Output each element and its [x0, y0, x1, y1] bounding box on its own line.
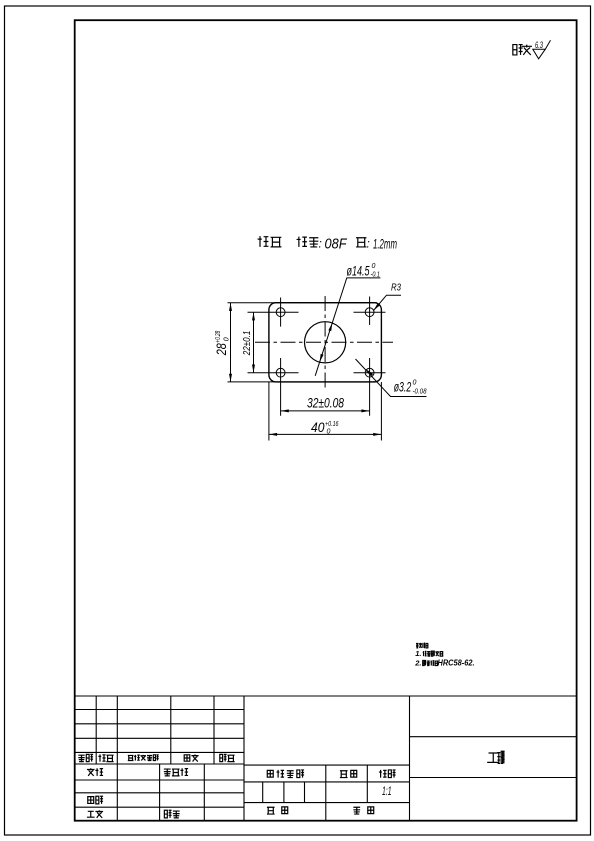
svg-text:32±0.08: 32±0.08 [307, 396, 344, 411]
svg-text:-0.1: -0.1 [371, 272, 381, 279]
svg-text:22±0.1: 22±0.1 [241, 331, 253, 356]
svg-text:1:1: 1:1 [382, 784, 392, 798]
svg-text:0: 0 [372, 263, 376, 270]
svg-text:6.3: 6.3 [535, 40, 543, 50]
svg-text:0: 0 [223, 337, 230, 341]
svg-text:1.2mm: 1.2mm [373, 236, 397, 252]
svg-text::: : [319, 237, 322, 251]
svg-text:+0.16: +0.16 [325, 421, 339, 428]
svg-text:0: 0 [413, 380, 417, 387]
svg-text:2.: 2. [414, 659, 421, 668]
svg-text:+0.28: +0.28 [215, 331, 222, 343]
svg-text:ø3.2: ø3.2 [394, 380, 412, 395]
svg-text:HRC58-62.: HRC58-62. [438, 659, 475, 668]
svg-text:-0.08: -0.08 [413, 389, 427, 396]
svg-text:0: 0 [327, 429, 331, 436]
svg-text:28: 28 [214, 343, 229, 356]
svg-text:08F: 08F [325, 237, 348, 253]
svg-text:40: 40 [311, 420, 325, 435]
svg-text:1.: 1. [415, 649, 421, 658]
svg-text:ø14.5: ø14.5 [347, 264, 370, 279]
svg-text:R3: R3 [391, 283, 401, 294]
svg-text::: : [367, 237, 370, 251]
